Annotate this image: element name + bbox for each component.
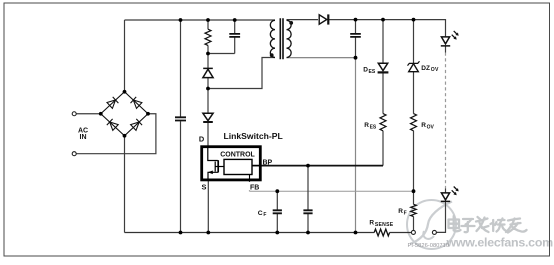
- transformer T1 secondary winding: [287, 20, 292, 57]
- wire: secondary return vertical: [355, 58, 357, 233]
- node: bottom rail / CF: [275, 231, 279, 235]
- zener diode DZOV (cathode up, bent bar): [408, 61, 420, 71]
- svg-text:PI-5826-080710: PI-5826-080710: [408, 243, 450, 249]
- wire: FB horizontal line to RF node: [250, 190, 414, 192]
- LED1: [441, 31, 459, 46]
- bridge diode top-right: [131, 97, 142, 109]
- wire: bridge top vertical: [124, 20, 126, 92]
- node: bottom rail / secondary return: [354, 231, 358, 235]
- node: output rail / output cap: [354, 18, 358, 22]
- svg-text:DZ: DZ: [421, 65, 430, 72]
- node: clamp diode / primary return: [206, 87, 210, 91]
- transformer primary polarity dot: [270, 53, 274, 57]
- FB pin stub inside: [249, 175, 251, 182]
- svg-text:R: R: [421, 122, 426, 129]
- clamp capacitor: [229, 34, 240, 37]
- resistor RSENSE: [374, 229, 389, 236]
- BP bypass capacitor: [303, 210, 312, 213]
- node: bridge bottom vertex: [123, 134, 127, 138]
- output diode D3: [319, 14, 328, 24]
- wire: bulk capacitor top lead: [180, 20, 182, 117]
- transformer T1 core: [280, 18, 283, 59]
- resistor RF: [411, 204, 417, 216]
- BP pin stub inside: [252, 165, 262, 167]
- wire: S pin to bottom rail: [207, 181, 209, 233]
- node: bridge left vertex: [99, 112, 103, 116]
- svg-text:LinkSwitch-PL: LinkSwitch-PL: [224, 131, 283, 141]
- node: bottom rail / bypass cap: [306, 231, 310, 235]
- wire: bridge bottom vertical: [124, 136, 126, 233]
- wire: clamp chain (rail to R, R to D1 bar, D1 to node, node down to D2, D2 to Drain): [207, 20, 209, 146]
- svg-text:OV: OV: [431, 67, 439, 73]
- node: output rail / DZOV: [412, 18, 416, 22]
- wire: bottom rail left of RSENSE: [125, 232, 375, 234]
- clamp blocking diode D1 (cathode up): [203, 68, 213, 77]
- wire: DES-RES chain leads: [382, 20, 384, 166]
- WATERMARK: [407, 200, 456, 249]
- wire: BP bypass cap leads: [307, 166, 309, 233]
- node: output rail / DES: [381, 18, 385, 22]
- svg-text:D: D: [199, 135, 205, 144]
- wire: FB pin drop: [249, 181, 251, 191]
- svg-text:FB: FB: [250, 185, 259, 192]
- clamp resistor: [205, 29, 211, 45]
- node: top rail / bulk cap: [179, 18, 183, 22]
- wire: output cap leads: [355, 20, 357, 58]
- svg-text:R: R: [364, 122, 369, 129]
- node: bottom rail / bulk cap: [179, 231, 183, 235]
- node: bottom rail / S pin: [206, 231, 210, 235]
- svg-text:ES: ES: [369, 69, 376, 75]
- svg-text:F: F: [263, 212, 266, 218]
- series diode D2 (cathode down): [203, 113, 213, 122]
- wire: AC upper lead: [76, 113, 101, 115]
- capacitor CF: [273, 210, 282, 213]
- wire: CF cap leads: [276, 191, 278, 232]
- wire: top rail left (bridge+ to primary top): [125, 19, 276, 21]
- resistor RES: [380, 114, 386, 131]
- wire: LED2 return to output terminal: [436, 201, 445, 232]
- node: bridge right vertex: [146, 112, 150, 116]
- svg-text:BP: BP: [263, 160, 273, 167]
- svg-text:C: C: [258, 210, 263, 217]
- resistor ROV: [411, 114, 417, 131]
- bridge frame: [101, 92, 148, 136]
- svg-text:R: R: [398, 208, 403, 215]
- wire: secondary top lead to output diode: [287, 19, 319, 21]
- svg-text:R: R: [369, 220, 374, 227]
- node: bridge top vertex: [123, 90, 127, 94]
- bridge diode bottom-right: [131, 119, 143, 130]
- AC input terminal top: [72, 112, 76, 116]
- svg-text:ES: ES: [370, 125, 377, 131]
- bulk capacitor C1: [175, 117, 186, 120]
- IC U1 LinkSwitch-PL: [202, 147, 262, 181]
- node: BP line / bypass cap: [306, 164, 310, 168]
- wire: bulk capacitor bottom lead: [180, 121, 182, 232]
- wire: AC lower loop: [76, 114, 156, 154]
- svg-text:S: S: [202, 183, 207, 192]
- bridge diode top-left: [107, 97, 118, 109]
- label FB (white backing): [249, 182, 261, 191]
- output capacitor C2: [350, 34, 361, 37]
- svg-text:SENSE: SENSE: [375, 222, 394, 228]
- wire: secondary bottom lead: [287, 57, 356, 59]
- diode DES (cathode down): [378, 63, 389, 72]
- node: FB line / ROV-RF: [412, 189, 416, 193]
- wire: clamp node horizontal + clamp cap leads: [208, 20, 235, 54]
- node: output cap / secondary return: [354, 56, 358, 60]
- svg-text:CONTROL: CONTROL: [220, 151, 255, 158]
- output terminal left: [411, 230, 415, 234]
- bridge rectifier BR1: [101, 92, 148, 136]
- wire: bottom rail RSENSE to output terminal: [390, 232, 412, 234]
- output terminal right: [432, 230, 436, 234]
- LED2: [441, 187, 459, 202]
- svg-text:IN: IN: [80, 134, 87, 141]
- wire: LED string dashed (more LEDs): [445, 53, 447, 189]
- svg-text:OV: OV: [427, 125, 435, 131]
- svg-text:F: F: [404, 210, 407, 216]
- wire: output rail after diode to LED string corner: [329, 20, 446, 38]
- wire: DZ-ROV-RF chain leads: [413, 20, 415, 231]
- node: top rail / clamp R: [206, 18, 210, 22]
- transformer T1 primary winding: [270, 20, 275, 57]
- node: FB line / CF: [275, 189, 279, 193]
- wire: LED string stub above LED2: [445, 189, 447, 193]
- node: clamp R-C join: [206, 52, 210, 56]
- bridge diode bottom-left: [107, 119, 118, 130]
- node: top rail / clamp C: [233, 18, 237, 22]
- svg-text:www.elecfans.com: www.elecfans.com: [446, 235, 554, 249]
- wire: primary bottom return to clamp node: [208, 58, 275, 89]
- mosfet inside IC: [208, 148, 224, 180]
- AC input terminal bottom: [72, 152, 76, 156]
- transformer secondary polarity dot: [289, 21, 293, 25]
- wire: LED string stub below LED1: [445, 46, 447, 52]
- wire: BP line from IC to RES bottom: [262, 165, 384, 167]
